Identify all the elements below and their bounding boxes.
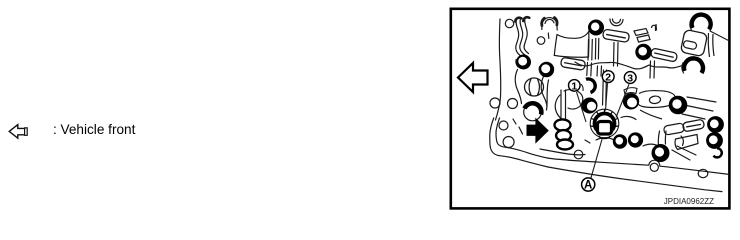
- rod right of black arrow: [561, 90, 566, 120]
- pocket side lines: [515, 70, 521, 104]
- cloud around boss left: [564, 89, 583, 109]
- leader line 1: [577, 92, 587, 122]
- figure code label: [664, 197, 714, 206]
- left worm band line3: [524, 19, 528, 54]
- wavy casting line mid: [575, 62, 686, 69]
- center boss ring: [595, 114, 615, 134]
- bolt B2: [539, 62, 554, 77]
- small circle holes: [490, 19, 708, 177]
- leader line 2: [606, 83, 608, 110]
- slot S4 right lower: [682, 119, 704, 132]
- vehicle front arrow icon: [9, 125, 27, 139]
- bolt B11: [628, 132, 643, 147]
- slot S3 right upper: [650, 48, 677, 62]
- bolt B1: [516, 55, 531, 70]
- bolt B12: [652, 144, 670, 162]
- callout 3: [624, 72, 636, 85]
- center boss connector: [598, 122, 612, 139]
- top cylinder: [557, 32, 589, 39]
- black pointer arrow: [527, 118, 549, 144]
- bolt B14b partial: [714, 148, 722, 157]
- bolt B14: [706, 132, 723, 149]
- center boss outer: [590, 109, 619, 138]
- bolt B17 washer stack: [555, 119, 571, 130]
- bolt B9: [623, 93, 639, 109]
- slot S1 near donut pair: [560, 57, 585, 70]
- valve bores verticals: [614, 43, 619, 67]
- slot S2 top middle: [602, 29, 629, 42]
- svg-text:3: 3: [627, 73, 633, 85]
- slot S4a right lower left: [663, 123, 684, 135]
- flange tick marks: [519, 127, 523, 134]
- figure border: [451, 9, 730, 209]
- goggles cloud: [637, 91, 676, 119]
- legend text: Vehicle front: [53, 122, 135, 137]
- left worm band line2: [520, 19, 525, 56]
- flange inner line: [496, 118, 548, 158]
- flange bottom contour right: [548, 167, 722, 192]
- bolt B4: [635, 44, 651, 60]
- bolt B15: [524, 103, 542, 121]
- valve body line art: [490, 17, 729, 191]
- callout A: [582, 178, 595, 192]
- bolt B18 washer stack: [556, 130, 573, 149]
- theta oval: [525, 78, 544, 96]
- callout 1: [569, 80, 581, 93]
- callout 2: [602, 71, 614, 84]
- lower mid cloud: [596, 138, 614, 140]
- svg-text:2: 2: [605, 72, 611, 84]
- svg-text:JPDIA0962ZZ: JPDIA0962ZZ: [664, 197, 714, 206]
- flange upper contour right: [548, 158, 729, 174]
- worm bold caps: [515, 18, 521, 22]
- bolt B6: [682, 58, 703, 73]
- bolt B5: [690, 15, 711, 31]
- bolt B8: [582, 98, 598, 114]
- svg-text:A: A: [584, 180, 592, 192]
- right mid verticals: [650, 61, 655, 78]
- ribbon below callout 3: [624, 88, 637, 95]
- inner verticals under column: [588, 39, 599, 61]
- center boss ticks: [591, 109, 619, 126]
- tilted square right: [680, 29, 707, 56]
- svg-text:1: 1: [571, 80, 577, 92]
- bolt B13: [707, 116, 724, 133]
- flange outline left outer: [490, 118, 548, 167]
- bolt B7: [669, 96, 688, 115]
- top-right diagonal to border: [710, 31, 729, 41]
- bottom left brackets: [557, 140, 590, 143]
- body left edge line: [496, 19, 501, 120]
- right square verticals: [708, 33, 714, 57]
- bottom right corner diagonals: [672, 146, 696, 160]
- right slope lines L1 L2 L3: [687, 97, 716, 102]
- leader line A: [591, 138, 603, 178]
- bolt B3: [588, 20, 604, 36]
- thin double arc U: [610, 19, 623, 26]
- bolt B16 partial: [581, 79, 595, 93]
- left worm band line1: [516, 19, 521, 56]
- bolt B10: [613, 134, 627, 148]
- small bent pieces top right: [634, 24, 657, 42]
- direction arrow (outline, pointing left): [458, 63, 488, 92]
- arc top half-circle double: [542, 18, 557, 24]
- small slot in square: [683, 40, 697, 50]
- leader line 3: [616, 84, 629, 117]
- body bottom inner line left: [540, 149, 585, 155]
